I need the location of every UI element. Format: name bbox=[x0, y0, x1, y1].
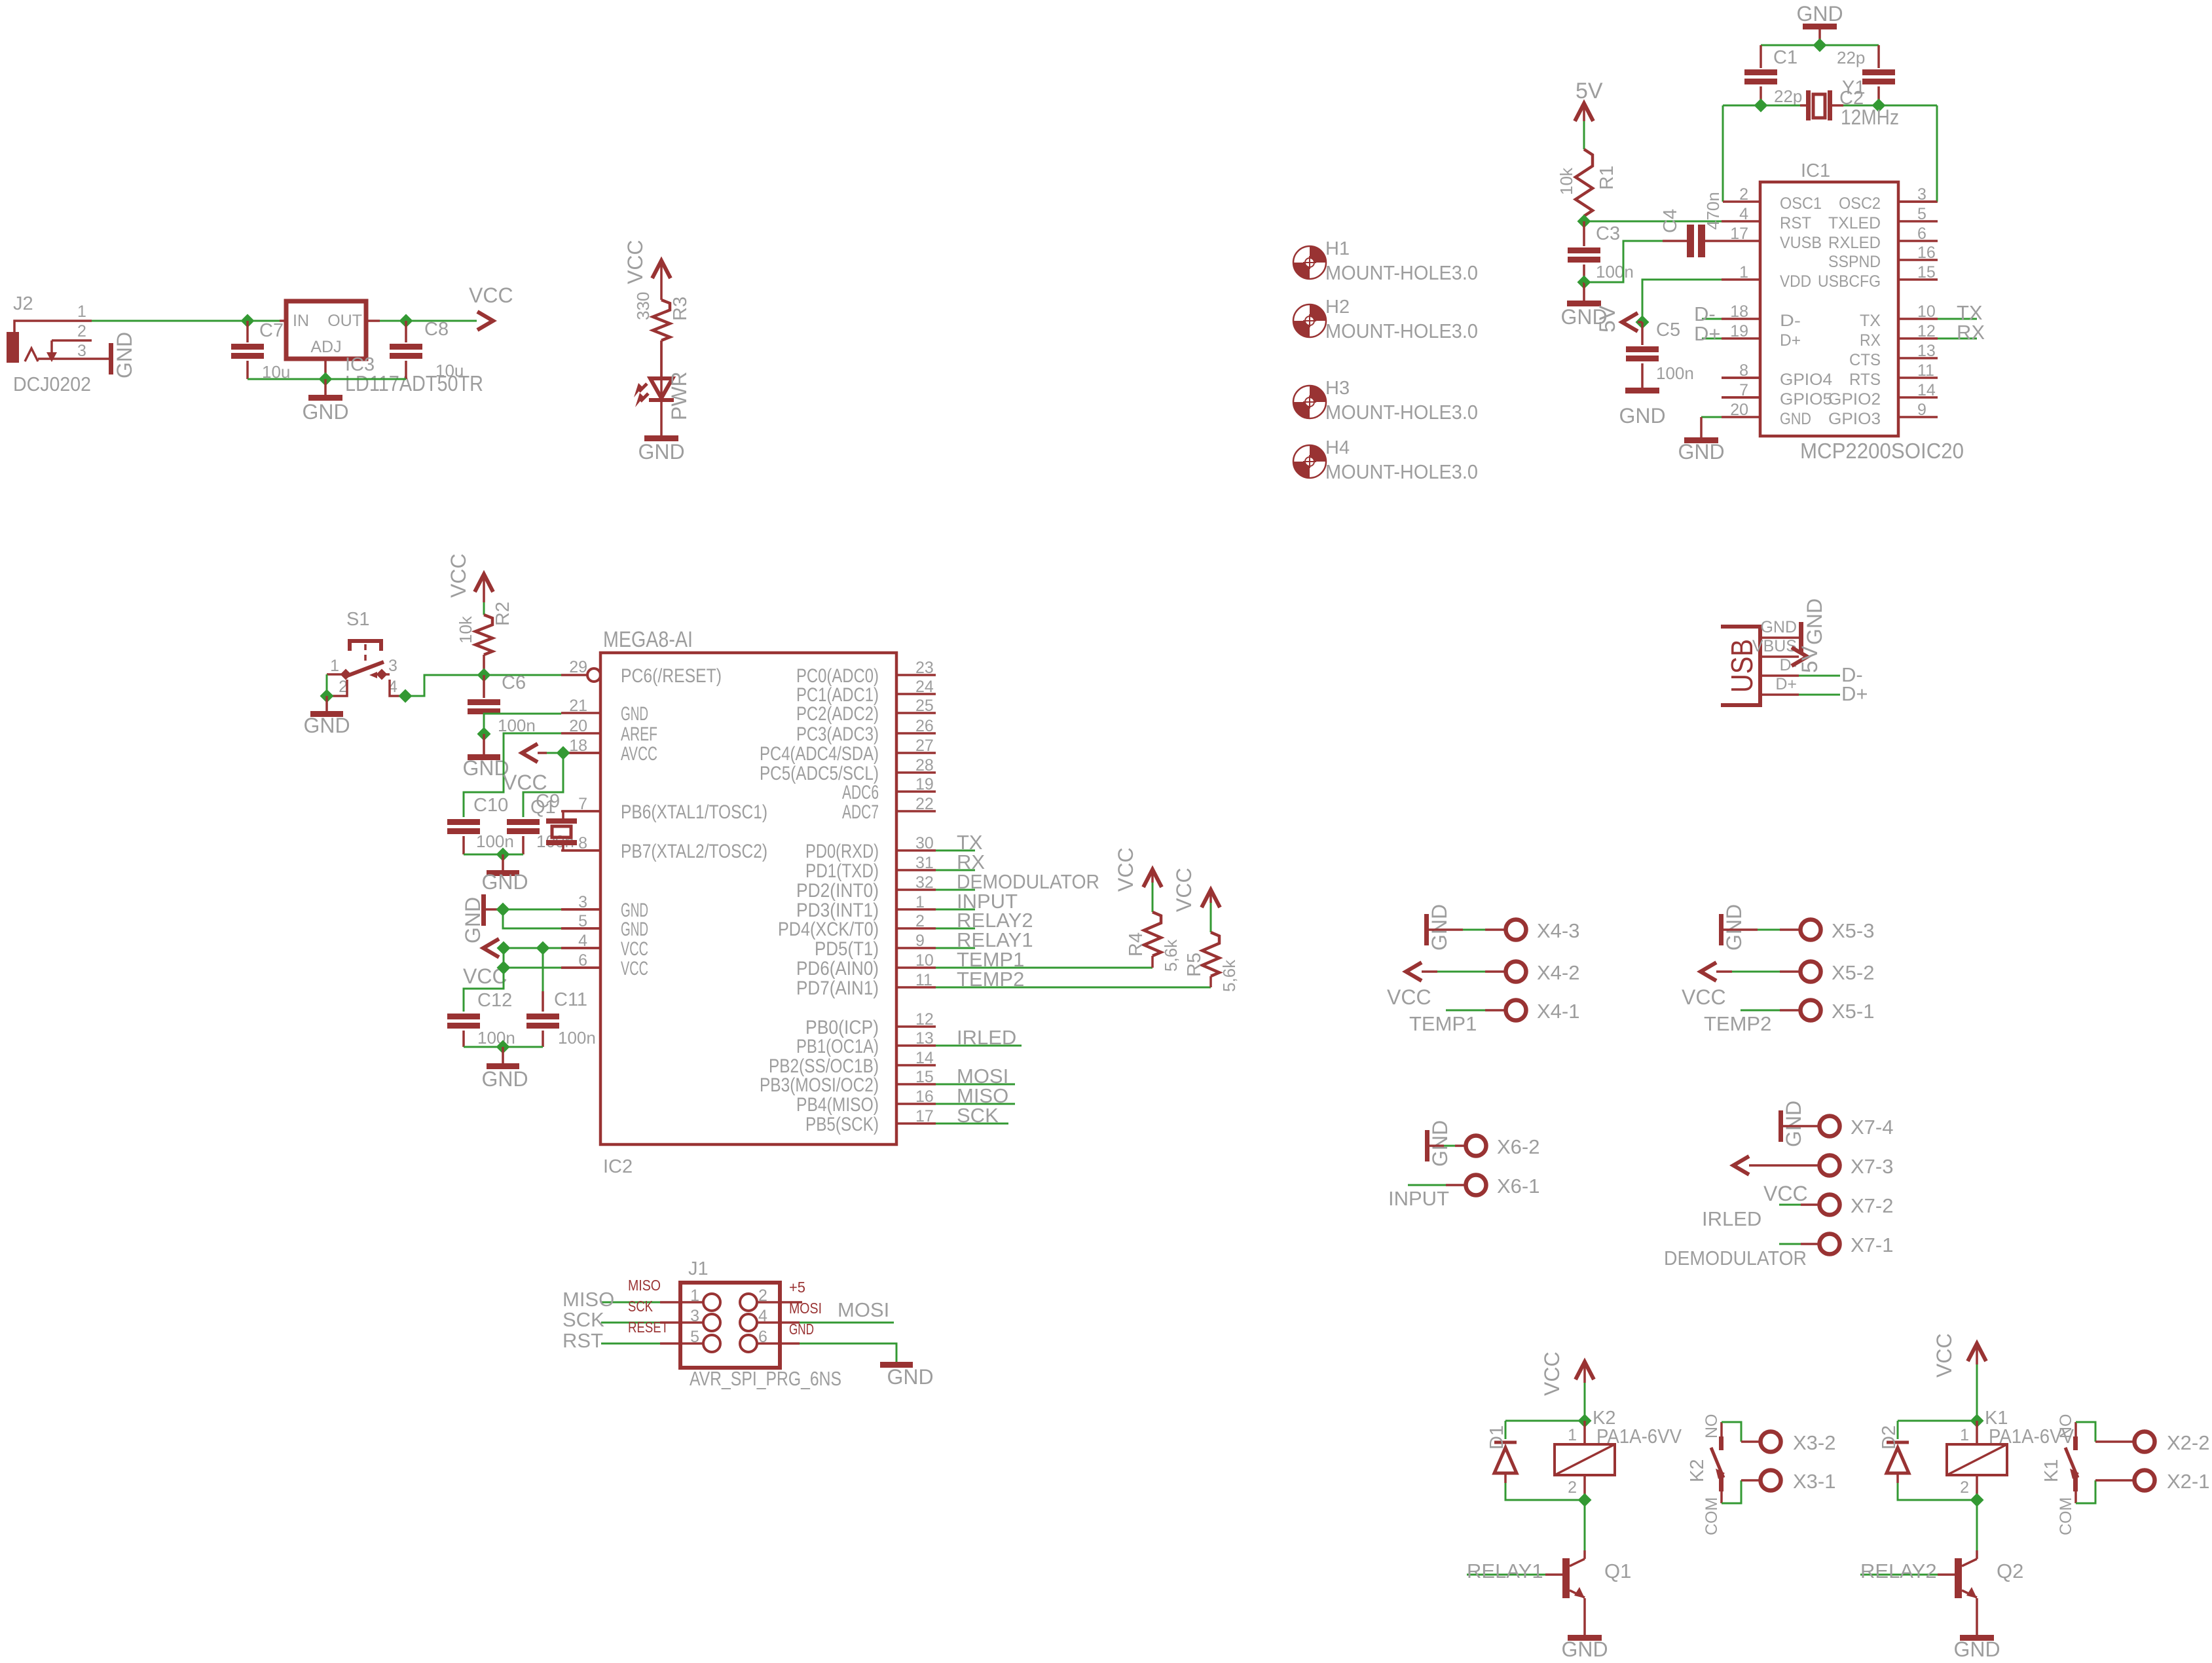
svg-text:K1: K1 bbox=[2041, 1459, 2062, 1482]
junction node at C7 bbox=[241, 314, 255, 328]
svg-text:GND: GND bbox=[481, 870, 528, 894]
svg-text:SCK: SCK bbox=[562, 1308, 604, 1331]
transistor Q2 bbox=[1955, 1558, 1962, 1598]
J1 pin5 RESET wire bbox=[601, 1343, 660, 1345]
svg-text:GND: GND bbox=[1760, 618, 1797, 636]
svg-text:6: 6 bbox=[1917, 225, 1926, 243]
svg-text:D+: D+ bbox=[1694, 322, 1721, 345]
ground symbol at USB GND pin (rotated) bbox=[1799, 622, 1803, 653]
ground symbol below Q1 bbox=[1568, 1635, 1602, 1641]
svg-text:100n: 100n bbox=[477, 1028, 515, 1048]
IC1 pin 16 stub bbox=[1898, 259, 1938, 261]
svg-text:D+: D+ bbox=[1780, 331, 1801, 350]
svg-text:MOSI: MOSI bbox=[838, 1298, 889, 1321]
svg-text:RX: RX bbox=[1860, 331, 1881, 350]
J1 pin6 GND wire bbox=[757, 1342, 800, 1345]
svg-text:D+: D+ bbox=[1775, 675, 1797, 693]
relay coil K1 PA1A-6VV bbox=[1976, 1421, 1978, 1444]
net stub D- to IC1 pin 18 bbox=[1702, 318, 1722, 320]
svg-text:DEMODULATOR: DEMODULATOR bbox=[1664, 1247, 1807, 1270]
svg-text:VCC: VCC bbox=[621, 938, 648, 960]
IC2 pin 11 PD7(AIN1) bbox=[896, 986, 936, 989]
svg-text:PC4(ADC4/SDA): PC4(ADC4/SDA) bbox=[760, 743, 879, 765]
net DEMODULATOR from IC2 pin 32 bbox=[936, 889, 975, 891]
svg-text:GND: GND bbox=[1678, 440, 1724, 464]
ground symbol below C10/C9 bbox=[502, 854, 504, 870]
svg-text:RST: RST bbox=[1780, 214, 1811, 232]
J2 pin 1 wire bbox=[14, 321, 92, 332]
connector pin X6-2 bbox=[1429, 1144, 1444, 1147]
svg-text:19: 19 bbox=[915, 775, 934, 794]
svg-text:17: 17 bbox=[1730, 225, 1748, 243]
svg-text:13: 13 bbox=[1917, 342, 1936, 360]
resistor R3 330 bbox=[660, 261, 663, 300]
svg-text:OSC2: OSC2 bbox=[1839, 194, 1881, 213]
connector pin X4-1 net TEMP1 bbox=[1446, 1010, 1485, 1012]
crystal top ground rail bbox=[1761, 45, 1879, 46]
svg-text:9: 9 bbox=[1917, 401, 1926, 419]
ground symbol below C3 bbox=[1583, 282, 1585, 301]
svg-text:12MHz: 12MHz bbox=[1841, 105, 1899, 129]
ground symbol at X4-3 (rotated) bbox=[1424, 914, 1429, 945]
svg-text:VBUS: VBUS bbox=[1752, 637, 1797, 655]
IC2 pin 23 PC0(ADC0) bbox=[896, 674, 936, 676]
wire coil to Q1 collector bbox=[1584, 1500, 1586, 1550]
transistor Q1 bbox=[1562, 1558, 1570, 1598]
junction node K2 top bbox=[1578, 1414, 1592, 1428]
svg-text:VCC: VCC bbox=[621, 958, 648, 979]
svg-text:X5-2: X5-2 bbox=[1832, 961, 1874, 984]
IC2 pin 12 PB0(ICP) bbox=[896, 1025, 936, 1028]
svg-text:1: 1 bbox=[1739, 263, 1748, 282]
IC1 pin 10 stub bbox=[1898, 318, 1938, 320]
svg-text:C11: C11 bbox=[554, 989, 587, 1010]
IC2 pin 10 PD6(AIN0) bbox=[896, 966, 936, 969]
svg-text:H4: H4 bbox=[1325, 437, 1350, 458]
net TX from IC2 pin 30 bbox=[936, 850, 975, 852]
junction node K1 bottom bbox=[1970, 1493, 1984, 1507]
svg-text:3: 3 bbox=[388, 657, 397, 675]
IC1 pin 3 stub bbox=[1898, 200, 1938, 203]
IC2 pin 16 PB4(MISO) bbox=[896, 1103, 936, 1105]
svg-text:C3: C3 bbox=[1596, 223, 1620, 244]
svg-text:PB3(MOSI/OC2): PB3(MOSI/OC2) bbox=[760, 1074, 879, 1096]
svg-text:RELAY1: RELAY1 bbox=[1467, 1560, 1543, 1582]
net TX from IC1 pin 10 bbox=[1938, 318, 1977, 320]
svg-text:GND: GND bbox=[113, 332, 136, 378]
IC1 pin 5 stub bbox=[1898, 220, 1938, 223]
wire LED to ground bbox=[660, 401, 663, 435]
svg-text:12: 12 bbox=[915, 1010, 934, 1029]
svg-text:D1: D1 bbox=[1486, 1425, 1507, 1450]
svg-text:X6-2: X6-2 bbox=[1497, 1135, 1539, 1158]
svg-text:C12: C12 bbox=[477, 990, 512, 1011]
svg-text:22p: 22p bbox=[1774, 86, 1802, 106]
svg-text:TEMP2: TEMP2 bbox=[957, 968, 1024, 991]
svg-text:AREF: AREF bbox=[621, 723, 657, 745]
svg-text:PB6(XTAL1/TOSC1): PB6(XTAL1/TOSC1) bbox=[621, 801, 767, 823]
svg-text:330: 330 bbox=[633, 292, 653, 320]
IC2 pin 24 PC1(ADC1) bbox=[896, 693, 936, 695]
svg-text:MOUNT-HOLE3.0: MOUNT-HOLE3.0 bbox=[1325, 261, 1478, 284]
svg-text:GND: GND bbox=[462, 756, 509, 780]
net D+ from USB bbox=[1799, 694, 1840, 696]
mount hole H2 MOUNT-HOLE3.0 bbox=[1293, 304, 1326, 337]
S1 pin 1-2 bracket wires bbox=[327, 673, 342, 676]
diode D2 bbox=[1898, 1420, 1977, 1422]
net RELAY1 to Q1 base bbox=[1467, 1574, 1545, 1576]
svg-text:RELAY2: RELAY2 bbox=[1860, 1560, 1937, 1582]
VCC power arrow at X4-2 (left) bbox=[1406, 962, 1422, 981]
ground symbol at J1 pin6 bbox=[880, 1362, 913, 1368]
resistor R5 5,6k bbox=[1209, 890, 1212, 903]
junction node crystal gnd rail bbox=[1813, 39, 1827, 52]
svg-text:R3: R3 bbox=[670, 297, 691, 321]
svg-text:1: 1 bbox=[330, 657, 339, 675]
svg-text:4: 4 bbox=[1739, 205, 1748, 223]
resistor R2 10k bbox=[483, 574, 485, 602]
ground symbol at J2 pin3 (rotated) bbox=[109, 343, 113, 375]
svg-text:31: 31 bbox=[915, 854, 934, 872]
svg-text:C5: C5 bbox=[1656, 320, 1680, 340]
svg-text:GND: GND bbox=[1428, 1120, 1452, 1167]
svg-text:VCC: VCC bbox=[1172, 868, 1196, 912]
svg-text:OSC1: OSC1 bbox=[1780, 194, 1822, 213]
ground rail C12/C11 bbox=[464, 1046, 543, 1048]
IC1 pin 6 stub bbox=[1898, 240, 1938, 242]
svg-text:PA1A-6VV: PA1A-6VV bbox=[1596, 1425, 1682, 1448]
svg-text:14: 14 bbox=[1917, 381, 1936, 399]
IC1 MCP2200SOIC20 body bbox=[1760, 182, 1898, 436]
connector pin X3-2 bbox=[1761, 1432, 1781, 1452]
svg-text:X3-2: X3-2 bbox=[1793, 1431, 1835, 1454]
net RX from IC1 pin 12 bbox=[1938, 338, 1977, 340]
net IRLED from IC2 pin 13 bbox=[936, 1045, 1022, 1047]
svg-text:X6-1: X6-1 bbox=[1497, 1175, 1539, 1197]
junction node C2 bottom bbox=[1872, 99, 1886, 113]
capacitor C3 100n bbox=[1583, 221, 1585, 246]
wire AVCC to C9 bbox=[523, 753, 563, 817]
capacitor C6 100n bbox=[483, 675, 485, 698]
svg-text:PD2(INT0): PD2(INT0) bbox=[796, 880, 879, 902]
svg-text:R2: R2 bbox=[492, 602, 513, 626]
svg-text:MISO: MISO bbox=[562, 1288, 614, 1311]
svg-text:IC1: IC1 bbox=[1801, 160, 1830, 181]
svg-text:100n: 100n bbox=[476, 831, 514, 851]
net RELAY2 to Q2 base bbox=[1860, 1574, 1938, 1576]
IC2 pin 25 PC2(ADC2) bbox=[896, 712, 936, 714]
svg-text:24: 24 bbox=[915, 678, 934, 696]
svg-text:10k: 10k bbox=[1557, 167, 1576, 195]
svg-text:GND: GND bbox=[461, 897, 485, 943]
svg-text:Q2: Q2 bbox=[1997, 1560, 2023, 1582]
IC2 pin 14 PB2(SS/OC1B) bbox=[896, 1064, 936, 1067]
svg-text:MEGA8-AI: MEGA8-AI bbox=[603, 627, 693, 652]
svg-text:X3-1: X3-1 bbox=[1793, 1470, 1835, 1493]
svg-text:C6: C6 bbox=[502, 672, 526, 693]
connector pin X2-1 bbox=[2135, 1471, 2155, 1491]
svg-text:VDD: VDD bbox=[1780, 272, 1811, 291]
svg-text:VCC: VCC bbox=[1540, 1351, 1564, 1396]
svg-text:X7-1: X7-1 bbox=[1851, 1234, 1893, 1256]
svg-text:PC2(ADC2): PC2(ADC2) bbox=[796, 703, 879, 725]
wire contact COM to X3-1 bbox=[1722, 1480, 1741, 1503]
capacitor C1 22p bbox=[1760, 45, 1762, 68]
svg-text:D-: D- bbox=[1780, 312, 1801, 330]
svg-text:RST: RST bbox=[562, 1329, 603, 1352]
svg-text:GND: GND bbox=[1561, 1637, 1608, 1661]
junction node C6 ground bbox=[477, 727, 491, 741]
svg-text:13: 13 bbox=[915, 1029, 934, 1048]
svg-text:GND: GND bbox=[1619, 404, 1665, 428]
svg-text:5,6k: 5,6k bbox=[1161, 939, 1181, 972]
svg-text:VCC: VCC bbox=[1387, 985, 1431, 1009]
IC1 pin 7 stub bbox=[1722, 396, 1760, 399]
svg-text:ADC7: ADC7 bbox=[842, 801, 879, 823]
diode D1 bbox=[1505, 1420, 1585, 1422]
svg-text:VCC: VCC bbox=[623, 240, 647, 284]
IC2 pin 32 PD2(INT0) bbox=[896, 888, 936, 891]
resistor R1 10k bbox=[1583, 103, 1585, 121]
wire to C12 bbox=[464, 968, 504, 1012]
mount hole H4 MOUNT-HOLE3.0 bbox=[1293, 445, 1326, 478]
wire Q2 emitter to ground bbox=[1976, 1598, 1978, 1635]
svg-text:1: 1 bbox=[915, 893, 925, 911]
svg-text:100n: 100n bbox=[1596, 262, 1634, 282]
svg-text:J1: J1 bbox=[688, 1258, 709, 1279]
relay coil K2 PA1A-6VV bbox=[1583, 1421, 1586, 1444]
J2 jack spring symbol bbox=[25, 348, 38, 361]
svg-text:12: 12 bbox=[1917, 322, 1936, 340]
junction node K1 top bbox=[1970, 1414, 1984, 1428]
IC2 pin 26 PC3(ADC3) bbox=[896, 732, 936, 735]
svg-text:20: 20 bbox=[569, 717, 587, 735]
IC2 pin 29 PC6(/RESET) with inverter circle bbox=[561, 674, 587, 676]
VCC power arrow (right) bbox=[477, 312, 493, 330]
net RX from IC2 pin 31 bbox=[936, 869, 975, 871]
svg-text:PD7(AIN1): PD7(AIN1) bbox=[796, 978, 879, 999]
capacitor C5 100n bbox=[1641, 322, 1644, 345]
ground rail C10/C9 bbox=[464, 854, 523, 856]
junction node K2 bottom bbox=[1578, 1493, 1592, 1507]
svg-text:16: 16 bbox=[915, 1087, 934, 1106]
svg-text:RESET: RESET bbox=[628, 1319, 669, 1336]
J1 pin3 SCK wire bbox=[601, 1322, 660, 1324]
svg-text:5,6k: 5,6k bbox=[1219, 959, 1239, 992]
mount hole H1 MOUNT-HOLE3.0 bbox=[1293, 246, 1326, 279]
svg-text:NO: NO bbox=[2057, 1414, 2075, 1439]
connector pin X6-1 net INPUT bbox=[1408, 1184, 1446, 1186]
svg-text:VCC: VCC bbox=[469, 283, 513, 307]
svg-text:GND: GND bbox=[1803, 598, 1826, 645]
IC2 pin 20 AREF bbox=[561, 732, 600, 735]
svg-text:D2: D2 bbox=[1879, 1425, 1900, 1450]
svg-text:C1: C1 bbox=[1773, 47, 1797, 68]
svg-text:IN: IN bbox=[293, 312, 309, 330]
wire contact NO to X2-2 bbox=[2076, 1422, 2095, 1442]
svg-text:GND: GND bbox=[302, 400, 348, 424]
wire C6 to IC2 GND pin 21 bbox=[484, 714, 561, 716]
IC2 pin 6 VCC bbox=[561, 966, 600, 969]
svg-text:10u: 10u bbox=[435, 361, 464, 380]
5V power arrow at USB VBUS (right) bbox=[1792, 648, 1807, 666]
IC2 pin 2 PD4(XCK/T0) bbox=[896, 927, 936, 930]
LED PWR bbox=[660, 340, 663, 401]
IC2 pin 13 PB1(OC1A) bbox=[896, 1044, 936, 1047]
svg-text:VCC: VCC bbox=[1763, 1182, 1808, 1205]
svg-text:COM: COM bbox=[2057, 1497, 2075, 1535]
capacitor C12 100n bbox=[447, 1014, 480, 1019]
svg-text:X4-2: X4-2 bbox=[1537, 961, 1579, 984]
svg-text:11: 11 bbox=[1917, 361, 1934, 380]
VCC power arrow at X5-2 (left) bbox=[1701, 962, 1716, 981]
svg-text:S1: S1 bbox=[346, 609, 369, 630]
svg-text:GND: GND bbox=[621, 919, 648, 940]
wire 5V net to IC1 RST pin 4 bbox=[1584, 221, 1722, 223]
connector pin X3-1 bbox=[1761, 1471, 1781, 1491]
svg-text:MOSI: MOSI bbox=[789, 1300, 822, 1317]
svg-text:C9: C9 bbox=[536, 791, 560, 812]
svg-text:5V: 5V bbox=[1595, 305, 1620, 333]
ground symbol below IC1 pin 20 bbox=[1684, 437, 1718, 443]
junction node at C5 bbox=[1636, 316, 1650, 329]
svg-text:2: 2 bbox=[1960, 1478, 1969, 1497]
svg-text:5V: 5V bbox=[1576, 79, 1603, 103]
connector pin X7-3 bbox=[1749, 1164, 1819, 1167]
IC1 pin 11 stub bbox=[1898, 376, 1938, 379]
net stub D+ to IC1 pin 19 bbox=[1702, 338, 1722, 340]
junction node S1 pin4 bbox=[399, 689, 413, 703]
connector pin X2-2 bbox=[2135, 1432, 2155, 1452]
svg-text:PWR: PWR bbox=[667, 371, 691, 420]
svg-text:25: 25 bbox=[915, 697, 934, 715]
net RELAY1 from IC2 pin 9 bbox=[936, 947, 975, 949]
svg-text:NO: NO bbox=[1703, 1414, 1721, 1439]
IC2 pin 8 PB7(XTAL2/TOSC2) bbox=[561, 849, 600, 852]
svg-text:2: 2 bbox=[77, 322, 86, 340]
5V power arrow (left) at C5 bbox=[1622, 313, 1638, 331]
svg-text:Q1: Q1 bbox=[1604, 1560, 1631, 1582]
net TEMP1 from IC2 pin 10 to R4 bbox=[936, 967, 1152, 969]
wire Q1 emitter to ground bbox=[1583, 1598, 1586, 1635]
S1 pin 3-4 bracket wires bbox=[382, 673, 390, 676]
svg-text:H2: H2 bbox=[1325, 297, 1350, 318]
connector pin X4-2 bbox=[1422, 970, 1437, 973]
junction node R1/C3/RST bbox=[1577, 215, 1591, 228]
ground symbol rotated at IC2 pins 3/5 bbox=[481, 894, 486, 926]
svg-text:TX: TX bbox=[1860, 312, 1881, 330]
VCC power arrow above R5 bbox=[1202, 890, 1220, 907]
svg-text:TEMP1: TEMP1 bbox=[1409, 1012, 1477, 1035]
net MOSI from IC2 pin 15 bbox=[936, 1084, 1015, 1086]
svg-text:28: 28 bbox=[915, 756, 934, 775]
ground symbol below IC3 bbox=[324, 379, 327, 395]
svg-text:H3: H3 bbox=[1325, 378, 1350, 399]
svg-text:R4: R4 bbox=[1126, 932, 1147, 957]
wires IC2 VCC pins 4 and 6 bbox=[504, 947, 561, 949]
IC2 pin 18 AVCC bbox=[561, 752, 600, 754]
svg-text:USBCFG: USBCFG bbox=[1818, 272, 1881, 291]
svg-text:5V: 5V bbox=[1797, 646, 1822, 673]
svg-text:11: 11 bbox=[915, 971, 932, 989]
connector pin X5-1 net TEMP2 bbox=[1741, 1010, 1780, 1012]
svg-text:TXLED: TXLED bbox=[1828, 214, 1881, 232]
svg-text:PB5(SCK): PB5(SCK) bbox=[805, 1114, 879, 1135]
connector pin X5-3 bbox=[1724, 928, 1758, 931]
net TEMP2 from IC2 pin 11 to R5 bbox=[936, 987, 1211, 989]
IC1 pin 15 stub bbox=[1898, 278, 1938, 281]
svg-text:15: 15 bbox=[1917, 263, 1936, 282]
svg-text:IRLED: IRLED bbox=[957, 1026, 1016, 1049]
net MISO from IC2 pin 16 bbox=[936, 1103, 1015, 1105]
svg-text:PC6(/RESET): PC6(/RESET) bbox=[621, 665, 722, 687]
wire C4 ground side bbox=[1584, 241, 1663, 282]
wire contact COM to X2-1 bbox=[2076, 1480, 2095, 1503]
IC2 MEGA8-AI body bbox=[600, 653, 896, 1144]
IC2 pin 30 PD0(RXD) bbox=[896, 849, 936, 852]
VCC power arrow above R4 bbox=[1143, 869, 1162, 887]
svg-text:RX: RX bbox=[1957, 321, 1985, 344]
svg-text:GND: GND bbox=[638, 440, 684, 464]
connector pin X7-4 bbox=[1783, 1125, 1819, 1127]
svg-text:SCK: SCK bbox=[957, 1104, 999, 1127]
IC2 pin 9 PD5(T1) bbox=[896, 947, 936, 949]
IC1 pin 9 stub bbox=[1898, 416, 1938, 418]
capacitor C10 100n bbox=[447, 819, 480, 825]
svg-text:ADC6: ADC6 bbox=[842, 782, 879, 803]
svg-text:27: 27 bbox=[915, 737, 934, 755]
svg-text:H1: H1 bbox=[1325, 238, 1350, 259]
ground symbol at X7-4 (rotated) bbox=[1779, 1110, 1783, 1142]
ground symbol at X6-2 (rotated) bbox=[1425, 1130, 1429, 1161]
svg-text:MOUNT-HOLE3.0: MOUNT-HOLE3.0 bbox=[1325, 320, 1478, 342]
wire IC1 pin 20 to ground bbox=[1701, 416, 1722, 418]
IC2 pin 22 ADC7 bbox=[896, 810, 936, 813]
svg-text:5: 5 bbox=[1917, 205, 1926, 223]
IC2 pin 1 PD3(INT1) bbox=[896, 908, 936, 911]
svg-text:29: 29 bbox=[569, 658, 587, 676]
svg-text:C10: C10 bbox=[473, 795, 508, 816]
svg-text:VCC: VCC bbox=[1932, 1333, 1956, 1378]
VCC power arrow at X7-3 (left) bbox=[1733, 1156, 1749, 1175]
svg-text:X7-3: X7-3 bbox=[1851, 1155, 1893, 1178]
svg-text:9: 9 bbox=[915, 932, 925, 950]
svg-text:DCJ0202: DCJ0202 bbox=[13, 373, 91, 395]
svg-text:GND: GND bbox=[887, 1365, 933, 1389]
svg-text:AVR_SPI_PRG_6NS: AVR_SPI_PRG_6NS bbox=[690, 1367, 841, 1390]
wire net from J2 to IC3 IN bbox=[92, 320, 280, 322]
wires IC2 GND pins 3 and 5 bbox=[503, 909, 561, 911]
svg-text:INPUT: INPUT bbox=[1388, 1187, 1449, 1210]
svg-text:100n: 100n bbox=[1656, 363, 1694, 383]
svg-text:10: 10 bbox=[1917, 302, 1936, 321]
svg-text:CTS: CTS bbox=[1849, 351, 1881, 369]
ground rail under IC3 bbox=[248, 378, 406, 380]
net SCK from IC2 pin 17 bbox=[936, 1123, 1008, 1125]
VCC power arrow above R2 bbox=[475, 574, 493, 592]
svg-text:GND: GND bbox=[621, 703, 648, 725]
connector pin X5-2 bbox=[1716, 970, 1732, 973]
VCC power arrow above K1 bbox=[1968, 1343, 1986, 1361]
J1 pin1 MISO wire bbox=[601, 1302, 660, 1304]
wire crystal to IC1 OSC1 pin 2 bbox=[1722, 105, 1724, 202]
connector pin X7-2 net IRLED bbox=[1779, 1204, 1801, 1206]
svg-text:GND: GND bbox=[481, 1067, 528, 1091]
svg-text:C7: C7 bbox=[259, 320, 284, 341]
svg-text:X2-1: X2-1 bbox=[2167, 1470, 2209, 1493]
svg-text:GPIO4: GPIO4 bbox=[1780, 371, 1832, 389]
svg-text:RXLED: RXLED bbox=[1828, 234, 1881, 252]
